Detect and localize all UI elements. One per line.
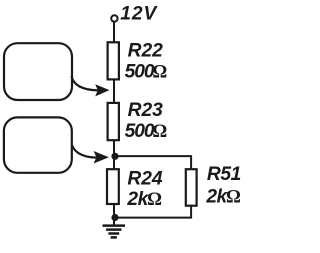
wire: R24 to ground node <box>113 204 115 225</box>
svg-text:500Ω: 500Ω <box>125 121 168 142</box>
resistor R24 <box>107 169 119 204</box>
node A junction dot <box>111 153 118 160</box>
svg-text:R22: R22 <box>128 40 164 61</box>
svg-text:500Ω: 500Ω <box>125 62 168 83</box>
wire: node A to R51 top <box>115 156 192 169</box>
callout box 2 (bottom, empty) <box>4 117 72 172</box>
resistor R22 <box>108 42 119 79</box>
svg-text:R51: R51 <box>207 164 241 185</box>
ground symbol <box>103 226 126 238</box>
wire: ground node to R51 bottom <box>115 206 192 218</box>
arrow from callout box 2 to node A <box>72 145 109 164</box>
svg-text:R23: R23 <box>128 100 164 121</box>
svg-text:R24: R24 <box>127 169 163 190</box>
arrow from callout box 1 to wire between R22 and R23 <box>72 76 110 96</box>
wire: R23 to R24 through node A <box>113 140 115 169</box>
svg-text:2kΩ: 2kΩ <box>205 186 241 207</box>
wire: R22 to R23 <box>113 79 115 103</box>
resistor R23 <box>108 103 119 140</box>
svg-text:2kΩ: 2kΩ <box>126 189 162 210</box>
callout box 1 (top, empty) <box>4 43 72 100</box>
svg-text:12V: 12V <box>120 3 158 24</box>
wire: terminal to R22 <box>113 22 115 43</box>
ground node junction dot <box>111 214 118 221</box>
resistor R51 <box>186 169 197 206</box>
12V supply terminal <box>111 15 117 21</box>
